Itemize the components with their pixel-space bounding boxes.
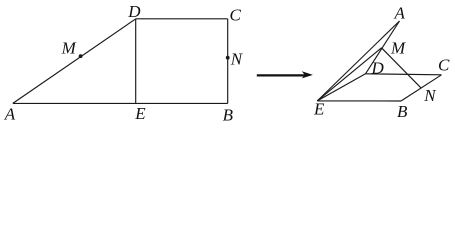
svg-text:M: M (390, 39, 406, 58)
arrow shaft (257, 74, 305, 76)
right figure: median EM (317, 48, 381, 101)
left figure: side AD (13, 19, 136, 104)
svg-text:A: A (4, 104, 16, 123)
left figure: point N dot (226, 56, 230, 60)
svg-text:M: M (61, 39, 77, 58)
right figure: base edge DE (317, 74, 365, 101)
svg-text:E: E (134, 104, 146, 123)
svg-text:B: B (223, 106, 234, 125)
svg-text:C: C (230, 6, 242, 25)
arrow head (302, 71, 313, 78)
right figure: flap edge EA (317, 21, 399, 101)
svg-text:C: C (438, 56, 450, 75)
left figure: side AB (13, 102, 228, 104)
svg-text:D: D (127, 2, 141, 21)
right figure: flap edge DA through M (366, 21, 400, 74)
left figure: altitude DE (135, 19, 137, 104)
right figure: base edge CD (366, 74, 442, 75)
right figure: base edge BC through N (401, 75, 442, 101)
svg-text:B: B (397, 102, 408, 121)
left figure: side DC (136, 18, 228, 20)
right figure: segment MN (382, 48, 421, 88)
left figure: side CB (227, 19, 229, 104)
svg-text:E: E (313, 100, 325, 119)
svg-text:D: D (371, 59, 385, 78)
right figure: base edge EB (317, 100, 401, 102)
left figure: point M dot (79, 54, 83, 58)
svg-text:N: N (423, 86, 437, 105)
svg-text:A: A (394, 3, 406, 22)
svg-text:N: N (230, 50, 244, 69)
